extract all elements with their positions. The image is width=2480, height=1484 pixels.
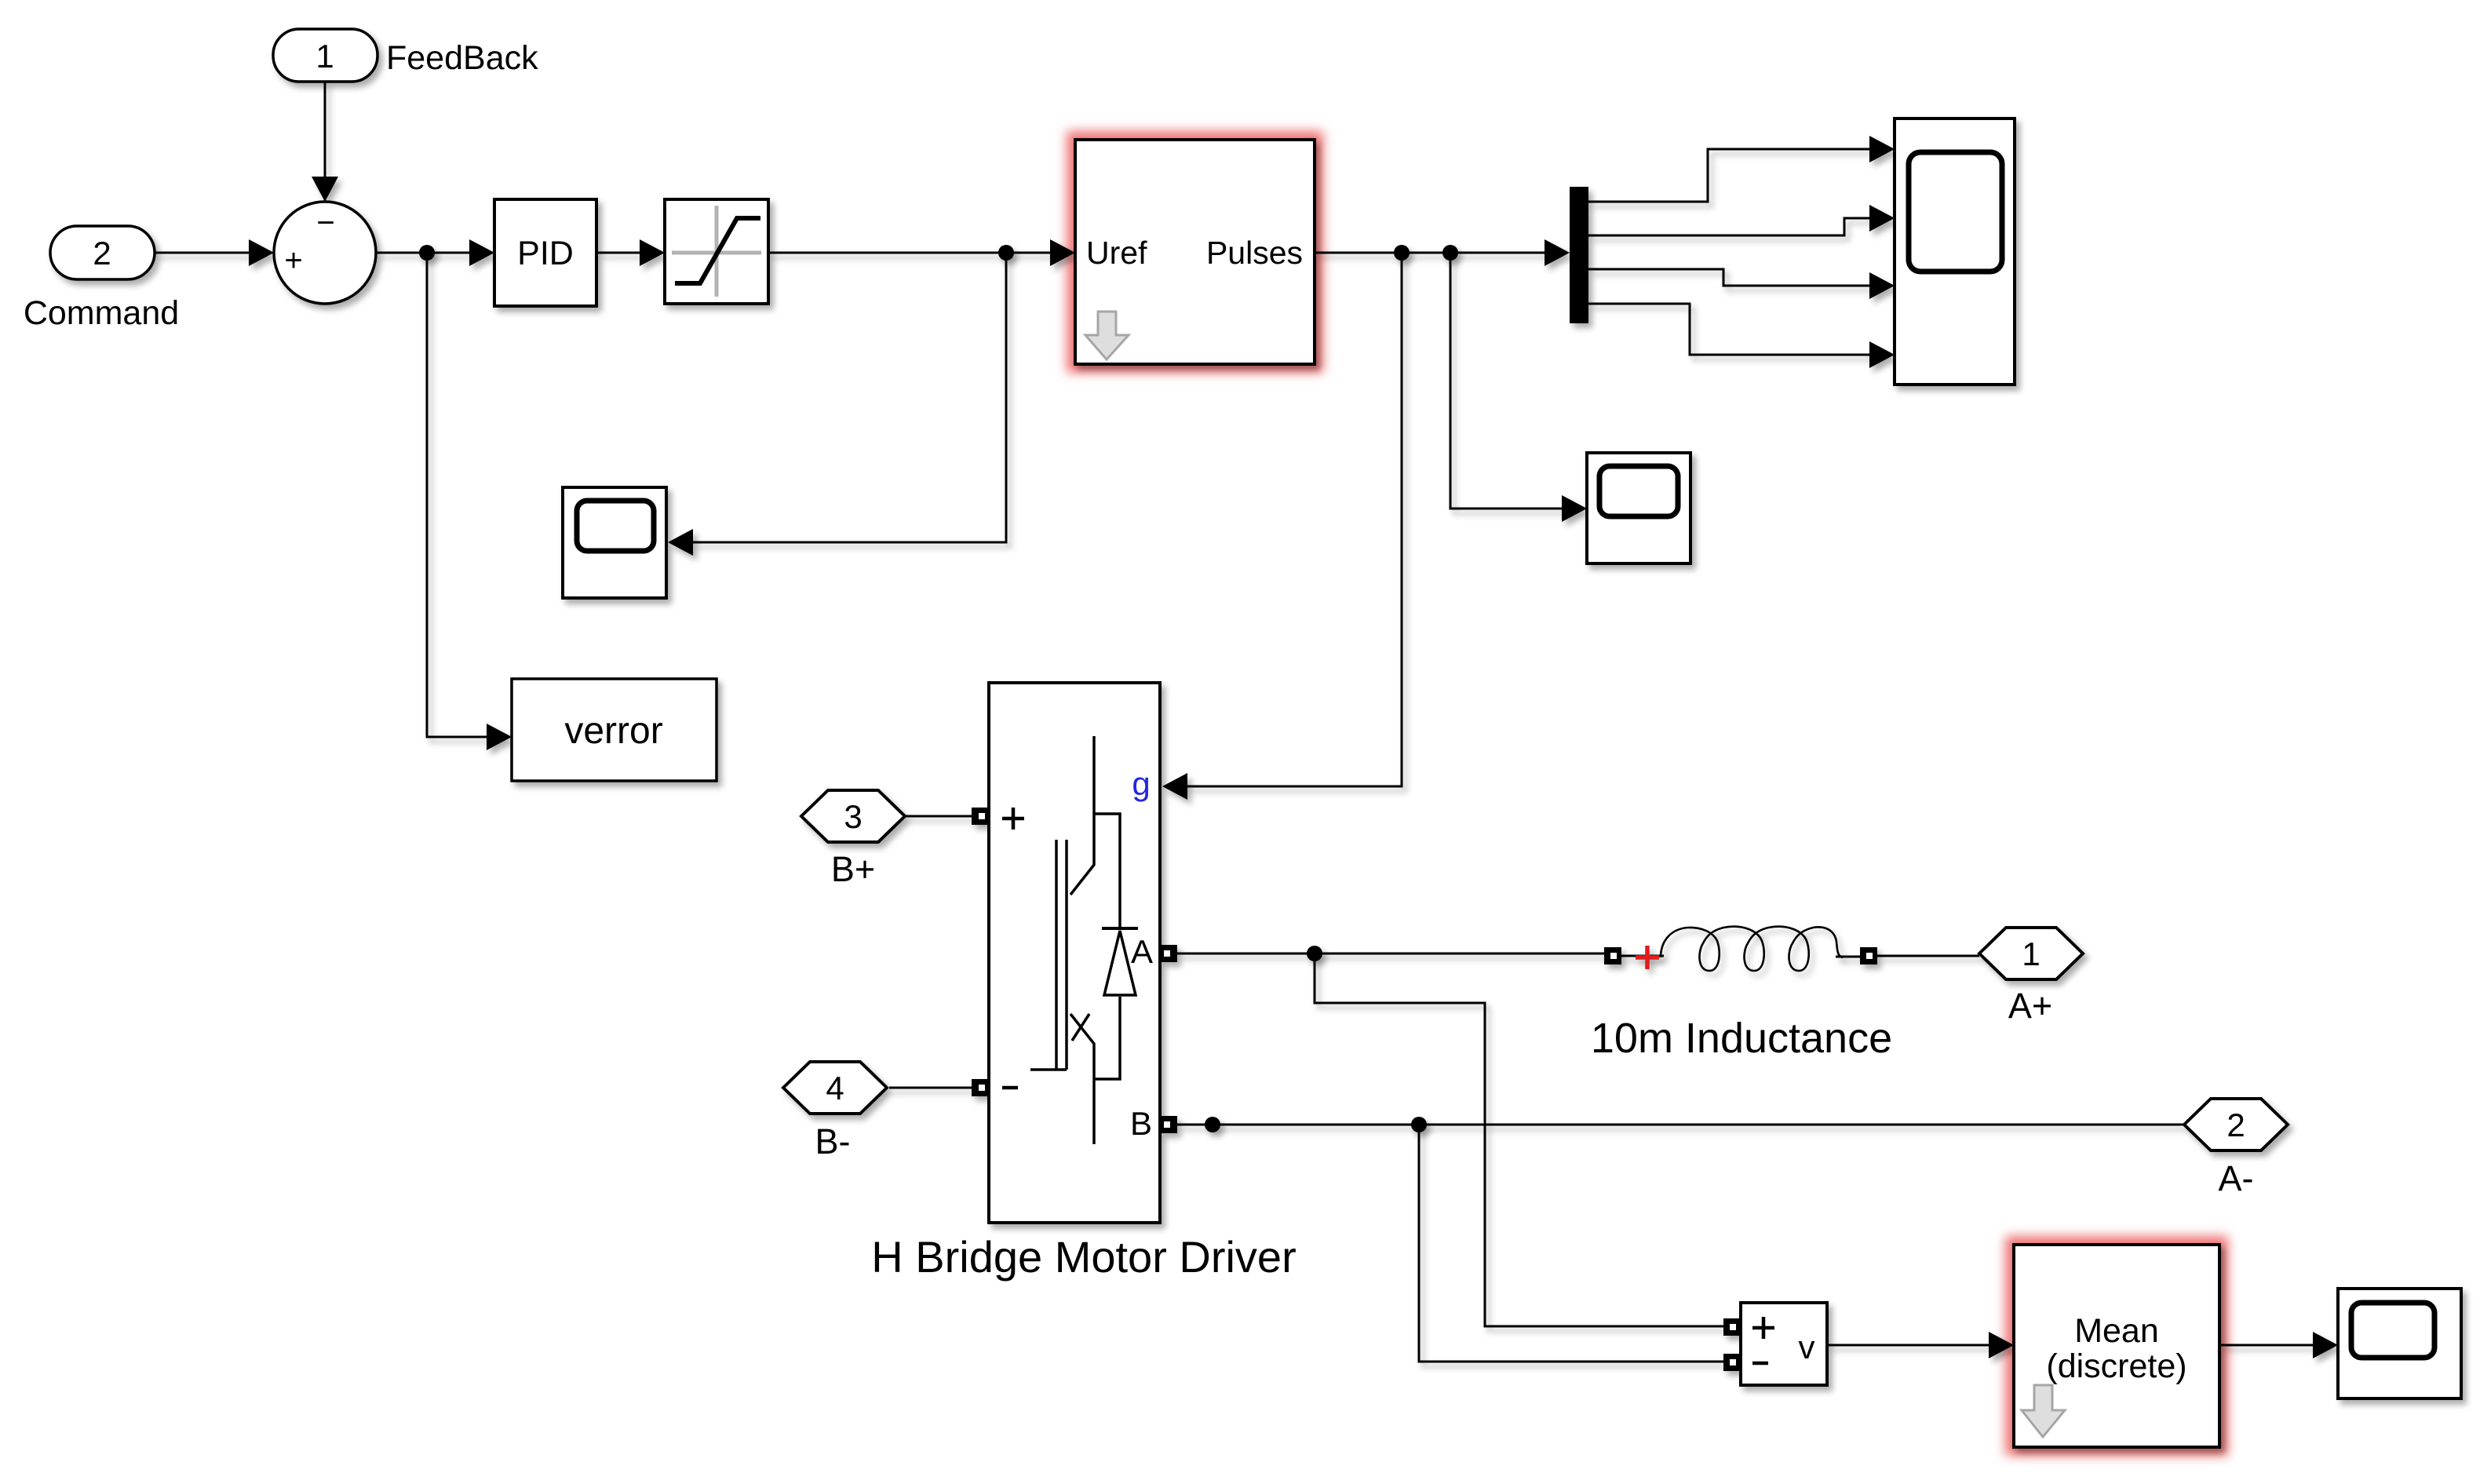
hexagon port 2 A- <box>2184 1099 2288 1150</box>
arrow into Scope2 <box>1562 495 1587 522</box>
Scope2 block <box>1587 453 1690 563</box>
junction A line <box>1307 946 1322 961</box>
svg-text:(discrete): (discrete) <box>2046 1347 2186 1385</box>
svg-text:v: v <box>1799 1329 1815 1365</box>
H-bridge + sign <box>1002 808 1024 830</box>
inductor port square right <box>1860 947 1877 964</box>
wire demux out2 <box>1588 218 1870 235</box>
svg-text:10m Inductance: 10m Inductance <box>1591 1015 1892 1062</box>
demux bar <box>1570 187 1588 323</box>
arrow into Mean <box>1989 1332 2014 1358</box>
junction Pulses 1 <box>1394 245 1410 261</box>
svg-text:verror: verror <box>564 710 662 752</box>
svg-text:1: 1 <box>2022 935 2040 972</box>
wire g feedback down to H-bridge <box>1187 253 1402 786</box>
svg-text:B+: B+ <box>831 849 875 889</box>
wire PID to Saturation <box>596 252 640 254</box>
H-bridge port square B <box>1160 1116 1177 1133</box>
wire inductor to hex1 A+ <box>1877 955 1979 957</box>
H-bridge icon: lower transistor diagonal <box>1030 1014 1094 1144</box>
H-bridge block <box>989 683 1160 1223</box>
wire Command to Sum <box>155 252 250 254</box>
subsystem Uref/Pulses <box>1075 140 1315 364</box>
svg-text:Mean: Mean <box>2074 1312 2159 1350</box>
arrow into Scope1 (points left) <box>668 529 693 556</box>
svg-text:3: 3 <box>844 798 862 835</box>
arrow into H-bridge g (points left) <box>1162 773 1187 800</box>
Scope3 block <box>2338 1289 2461 1398</box>
svg-text:FeedBack: FeedBack <box>386 39 538 77</box>
H-bridge port square - <box>972 1079 989 1096</box>
arrow into PID <box>469 239 494 266</box>
wire inductor right lead <box>1836 956 1860 958</box>
arrow into subsystem Uref <box>1050 239 1075 266</box>
H-bridge port square A <box>1160 945 1177 962</box>
wire Saturation to subsystem <box>768 252 1051 254</box>
wire B tap to voltmeter - <box>1419 1125 1723 1362</box>
sum block <box>274 202 376 304</box>
svg-text:A+: A+ <box>2008 986 2052 1026</box>
wire Pulses to Demux <box>1315 252 1545 254</box>
wire inductor left lead <box>1621 955 1664 957</box>
svg-text:g: g <box>1132 765 1150 802</box>
saturation icon curve <box>675 218 760 283</box>
Mean gray arrow icon <box>2022 1385 2065 1437</box>
inport 1 FeedBack <box>273 29 377 82</box>
svg-text:A: A <box>1131 933 1153 970</box>
voltmeter - sign <box>1752 1362 1768 1365</box>
verror block <box>512 679 717 781</box>
inductor coil <box>1661 927 1843 971</box>
svg-text:4: 4 <box>826 1070 844 1107</box>
wire demux out1 <box>1588 149 1870 202</box>
inductor red plus <box>1636 946 1659 969</box>
subsystem gray arrow icon <box>1085 312 1129 359</box>
inductor port square left <box>1604 947 1621 964</box>
H-bridge icon: diode branch <box>1094 814 1120 1079</box>
wire junction to Scope2 <box>1450 253 1563 509</box>
arrow into sum left <box>249 239 274 266</box>
wire demux out3 <box>1588 269 1870 286</box>
voltmeter + sign <box>1752 1317 1774 1339</box>
wire FeedBack to Sum <box>324 82 326 177</box>
arrow into verror <box>487 724 512 750</box>
H-bridge - sign <box>1002 1086 1018 1090</box>
wire voltmeter to Mean <box>1827 1344 1989 1347</box>
svg-text:H Bridge Motor Driver: H Bridge Motor Driver <box>871 1232 1296 1282</box>
voltmeter port square - <box>1723 1354 1741 1371</box>
arrow into Scope3 <box>2313 1332 2338 1358</box>
red highlight glow: subsystem Uref/Pulses <box>1075 140 2219 1447</box>
svg-text:2: 2 <box>93 235 111 272</box>
wire bridge B to hex2 A- <box>1177 1124 2184 1126</box>
arrow into Saturation <box>640 239 665 266</box>
svg-text:A-: A- <box>2219 1158 2254 1198</box>
red highlight glow: Mean block <box>2014 1245 2219 1447</box>
hexagon port 4 B- <box>783 1062 887 1114</box>
PID block <box>494 199 596 306</box>
hexagon port 3 B+ <box>801 790 905 842</box>
voltmeter port square + <box>1723 1318 1741 1336</box>
saturation block <box>665 199 768 304</box>
H-bridge icon: emitter slash <box>1072 1014 1089 1041</box>
wire hex4 B- to bridge - <box>889 1087 972 1089</box>
svg-text:2: 2 <box>2227 1107 2245 1143</box>
saturation icon gray axes <box>672 206 761 297</box>
arrow into demux <box>1545 239 1570 266</box>
arrow into sum top <box>312 177 338 202</box>
svg-text:B: B <box>1130 1105 1152 1142</box>
wire bridge A to inductor <box>1177 953 1604 955</box>
H-bridge icon: gate bars <box>1056 840 1067 1070</box>
wire Mean to Scope3 <box>2219 1344 2314 1347</box>
svg-text:B-: B- <box>815 1121 851 1161</box>
svg-text:1: 1 <box>315 38 334 75</box>
voltage measurement block <box>1741 1303 1827 1385</box>
H-bridge port square + <box>972 808 989 825</box>
junction Pulses 2 <box>1442 245 1458 261</box>
junction B line 2 <box>1411 1117 1427 1132</box>
wire demux out4 <box>1588 304 1870 355</box>
Scope (4 input) block <box>1895 119 2015 385</box>
svg-text:Command: Command <box>24 294 179 332</box>
wire A tap to voltmeter + <box>1315 953 1723 1326</box>
svg-text:PID: PID <box>517 235 574 272</box>
svg-text:Uref: Uref <box>1086 235 1147 271</box>
H-bridge icon: diode <box>1102 927 1138 930</box>
wire hex3 B+ to bridge + <box>905 815 972 818</box>
junction after sum <box>419 245 435 261</box>
wire junction down to verror <box>427 253 487 737</box>
svg-text:Pulses: Pulses <box>1206 235 1303 271</box>
wire Sum to PID <box>376 252 470 254</box>
arrows into Scope (4) <box>1869 136 1895 162</box>
inport 2 Command <box>50 226 155 279</box>
svg-text:−: − <box>316 206 334 240</box>
svg-text:+: + <box>284 243 302 278</box>
wire down to Scope1 <box>692 253 1006 542</box>
H-bridge icon: top lead <box>1070 736 1094 895</box>
Scope1 block <box>563 487 666 598</box>
hexagon port 1 A+ <box>1979 928 2083 979</box>
junction B line 1 <box>1205 1117 1220 1132</box>
junction before Uref <box>998 245 1014 261</box>
Mean block <box>2014 1245 2219 1447</box>
